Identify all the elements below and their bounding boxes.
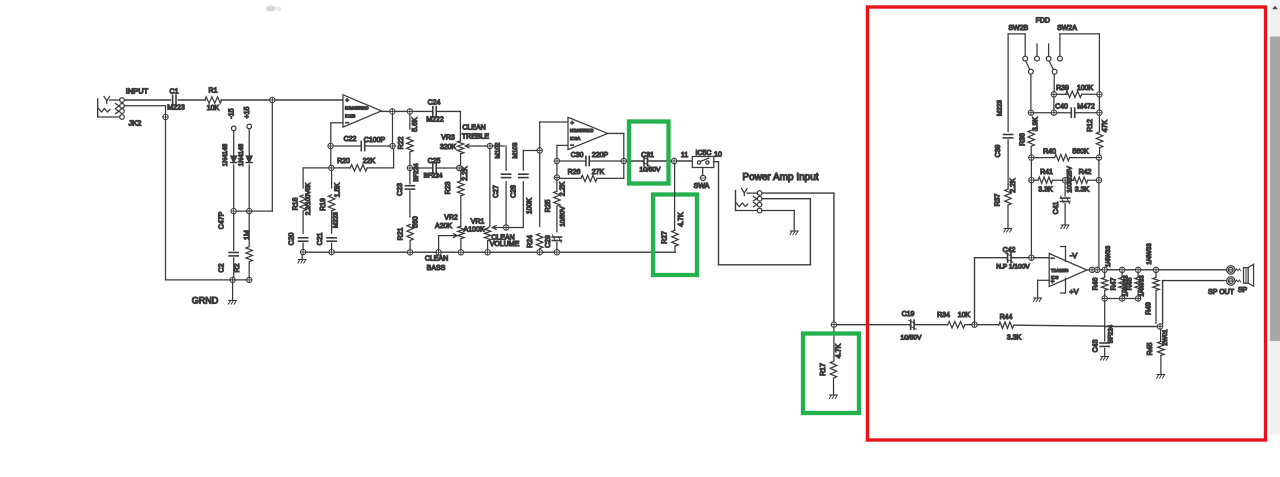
capacitor C30 220P feedback [560, 152, 622, 166]
svg-text:NJM4558DD: NJM4558DD [345, 105, 368, 110]
node VR1 wiper C27 [503, 225, 508, 230]
svg-text:2.2/100V5K: 2.2/100V5K [305, 182, 312, 215]
svg-text:47K: 47K [1102, 119, 1109, 132]
resistor R48 1/4W33 [1127, 273, 1146, 297]
svg-text:C19: C19 [902, 311, 915, 318]
svg-text:3.3K: 3.3K [1007, 335, 1022, 342]
svg-text:BF224: BF224 [413, 163, 420, 182]
svg-text:C20: C20 [289, 232, 296, 245]
wire IC3A -input column [557, 145, 568, 158]
resistor R26 27K feedback [560, 164, 624, 182]
diode D2 1N4148 [238, 129, 252, 208]
wire R20 row to R18 column [303, 168, 329, 188]
svg-text:A100K: A100K [463, 227, 484, 234]
svg-text:1N4148: 1N4148 [238, 143, 245, 166]
wire C42 to node [1011, 257, 1028, 259]
node R45 R49 speaker [1157, 324, 1162, 329]
wire R24 column / IC3A +input [540, 122, 568, 226]
node R46 top [1102, 267, 1107, 272]
svg-text:1000/25V: 1000/25V [1067, 165, 1074, 192]
svg-text:+: + [571, 121, 575, 127]
wire C31 to node [648, 160, 672, 162]
node fb bottom-left [329, 165, 334, 170]
green annotation box around R17 [803, 334, 859, 414]
wire node to IC6 -input [1034, 257, 1049, 259]
svg-text:3.3K: 3.3K [1038, 187, 1053, 194]
capacitor C1 [167, 89, 185, 112]
svg-text:-V: -V [1070, 251, 1078, 260]
svg-text:R25: R25 [545, 199, 552, 212]
svg-text:R39: R39 [1056, 85, 1069, 92]
svg-text:C30: C30 [571, 152, 584, 159]
wire jack contact 2 down to sleeve junction [125, 106, 166, 114]
scrollbar up button arrow [1272, 6, 1278, 10]
wire SW2A common down [1053, 74, 1055, 92]
svg-text:GRND: GRND [192, 296, 219, 306]
resistor R38 3.9K [1019, 116, 1039, 154]
svg-text:C42: C42 [1003, 247, 1016, 254]
svg-text:2.2K: 2.2K [1010, 178, 1017, 193]
label CLEAN TREBLE [462, 125, 490, 141]
svg-text:R20: R20 [337, 158, 350, 165]
label CLEAN VOLUME [490, 235, 520, 249]
wire output row [1095, 269, 1226, 271]
svg-text:+: + [346, 98, 350, 104]
ground C41 [1061, 224, 1069, 226]
capacitor C23 BF224 [397, 163, 420, 217]
node R48 top [1135, 267, 1140, 272]
svg-text:C2: C2 [218, 263, 225, 272]
resistor R1 [205, 88, 222, 113]
scrollbar thumb [1270, 37, 1280, 342]
svg-text:IC3A: IC3A [570, 136, 581, 141]
wire R25 column [556, 164, 558, 192]
node C31 right [671, 158, 676, 163]
svg-text:2W01: 2W01 [1162, 329, 1169, 346]
node R25 col R26 [554, 175, 559, 180]
svg-text:VOLUME: VOLUME [490, 241, 520, 248]
node diode rail A [231, 208, 236, 213]
svg-text:N.P 1/100V: N.P 1/100V [996, 264, 1030, 271]
node bus VR2 wiper [436, 250, 441, 255]
wire R46-R48 bottom row [1107, 298, 1135, 300]
svg-text:NJM4558DD: NJM4558DD [570, 128, 593, 133]
wire treble node down to VR1 [489, 149, 491, 222]
node R39 left [1051, 92, 1056, 97]
resistor R19 1.5K [320, 182, 342, 233]
wire C19 to R34 [914, 324, 947, 326]
ground bus wire [306, 251, 675, 253]
wire fb left column [330, 149, 332, 166]
resistor R44 3.3K [977, 314, 1104, 342]
svg-text:R34: R34 [937, 312, 950, 319]
svg-text:4.7K: 4.7K [678, 212, 685, 227]
capacitor C21 [317, 232, 336, 249]
faint smudge artifact [266, 6, 282, 12]
ground power amp jack [790, 230, 798, 232]
capacitor C31 10/50V [640, 152, 662, 174]
switch control SWA [694, 175, 710, 190]
resistor R42 3.3K [1068, 169, 1096, 194]
node R47 bottom [1119, 296, 1124, 301]
svg-text:1.5K: 1.5K [335, 182, 342, 197]
svg-text:3.9K: 3.9K [1032, 116, 1039, 131]
node IC6 out B [1095, 267, 1100, 272]
wire treble node [478, 145, 504, 147]
capacitor C42 NP 1/100V [996, 247, 1030, 271]
power amp input jack [736, 189, 762, 213]
svg-text:C24: C24 [428, 100, 441, 107]
node bus R21 [407, 250, 412, 255]
svg-text:IC5C: IC5C [696, 150, 712, 157]
wire IC1B output [381, 110, 389, 112]
svg-text:27K: 27K [592, 169, 605, 176]
svg-text:100K: 100K [1077, 85, 1094, 92]
resistor R46 1/4W33 [1093, 245, 1112, 296]
node diode rail B [247, 208, 252, 213]
svg-text:C31: C31 [641, 152, 654, 159]
ground IC6 +input [1034, 297, 1042, 299]
svg-text:10K: 10K [958, 312, 971, 319]
node IC1B out A [390, 109, 395, 114]
capacitor C40 M472 [1055, 104, 1095, 118]
node C40 left outer [1028, 110, 1033, 115]
capacitor C19 10/50V [901, 311, 923, 342]
svg-text:M102: M102 [495, 142, 502, 158]
svg-text:C21: C21 [317, 232, 324, 245]
svg-text:+V: +V [1069, 287, 1078, 296]
VR2 wiper arrow [439, 234, 458, 250]
svg-text:1M: 1M [244, 230, 251, 240]
svg-text:22K: 22K [363, 158, 376, 165]
ground GRND [229, 300, 237, 302]
ground C43 [1101, 356, 1109, 358]
wire C40 row [1034, 112, 1097, 114]
node C25 right [457, 165, 462, 170]
resistor R18 [292, 182, 312, 233]
node bus C20 [300, 249, 305, 254]
svg-text:TDA2050: TDA2050 [1051, 268, 1069, 273]
svg-text:R49: R49 [1146, 302, 1153, 315]
svg-text:CLEAN: CLEAN [462, 125, 485, 132]
svg-text:C22: C22 [344, 136, 357, 143]
svg-text:R46: R46 [1093, 277, 1100, 290]
node bus C29 [554, 250, 559, 255]
node R22 bottom [407, 165, 412, 170]
terminal -15 [229, 108, 236, 130]
resistor R40 560K [1034, 149, 1096, 161]
resistor R34 10K [937, 312, 970, 328]
svg-text:SP: SP [1238, 287, 1248, 294]
svg-text:1N4148: 1N4148 [222, 143, 229, 166]
GRND rail wire [166, 279, 248, 281]
capacitor C43 BF224 [1093, 324, 1115, 356]
svg-text:INPUT: INPUT [126, 87, 149, 96]
capacitor C41 1000/25V [1053, 165, 1074, 224]
ground R37 [1004, 228, 1012, 230]
wire SW2A col R39-C40 [1053, 97, 1055, 110]
svg-text:VR2: VR2 [444, 215, 458, 222]
svg-text:R37: R37 [995, 193, 1002, 206]
svg-text:560: 560 [413, 216, 420, 228]
node fb top-left [328, 143, 333, 148]
capacitor C29 10/50V [545, 206, 566, 250]
svg-text:R22: R22 [398, 136, 405, 149]
resistor R24 100K [526, 198, 543, 250]
ground R45 [1157, 374, 1165, 376]
svg-text:R24: R24 [527, 235, 534, 248]
node bus VR1 bottom [485, 250, 490, 255]
resistor R49 1/4W33 [1146, 243, 1160, 324]
svg-text:4.7K: 4.7K [836, 343, 843, 358]
svg-text:VR3: VR3 [441, 135, 455, 142]
svg-text:C43: C43 [1093, 339, 1100, 352]
node power amp R44 [972, 322, 977, 327]
wire sleeve down to GRND rail [165, 120, 167, 280]
svg-text:BF224: BF224 [424, 173, 443, 180]
svg-text:C47P: C47P [218, 211, 225, 229]
svg-text:-15: -15 [229, 108, 236, 118]
svg-text:2.2K: 2.2K [560, 181, 567, 196]
node R40 left [1029, 155, 1034, 160]
wire IC5C output loop to power amp jack [714, 162, 811, 265]
svg-text:−: − [1051, 255, 1055, 262]
svg-text:560K: 560K [1072, 149, 1089, 156]
svg-text:BASS: BASS [427, 265, 446, 272]
wire R38 col down [1030, 160, 1032, 177]
wire R19 column top [331, 171, 333, 188]
capacitor C25 row [413, 158, 457, 180]
svg-text:M223: M223 [997, 100, 1004, 116]
resistor R27 4.7K [661, 164, 685, 253]
node R46 bottom [1102, 296, 1107, 301]
resistor R45 2W0.1 [1147, 329, 1169, 374]
svg-text:A20K: A20K [435, 223, 452, 230]
power amp IC6 TDA2050 [1049, 254, 1087, 287]
resistor R39 100K [1056, 85, 1097, 98]
svg-text:10: 10 [714, 152, 722, 159]
node GRND R2 [247, 277, 252, 282]
svg-text:M223: M223 [332, 212, 339, 228]
node R41 left [1029, 178, 1034, 183]
feedback wire IC1B -input [331, 123, 343, 144]
node bus R24 [537, 250, 542, 255]
svg-text:3.3K: 3.3K [1075, 187, 1090, 194]
node bus VR2 bottom [458, 250, 463, 255]
resistor R22 5.6K [398, 114, 419, 165]
op-amp IC1B [343, 95, 381, 127]
svg-text:JK2: JK2 [129, 119, 142, 128]
svg-text:VR1: VR1 [471, 219, 485, 226]
svg-text:SP OUT: SP OUT [1208, 289, 1235, 296]
IC6 -V supply pin [1061, 247, 1078, 262]
node GRND C2 [230, 277, 235, 282]
resistor R20 22K [334, 149, 394, 171]
potentiometer VR2 A20K [435, 215, 464, 250]
svg-text:SWA: SWA [694, 183, 710, 190]
svg-text:C23: C23 [397, 183, 404, 196]
wire R34 to node [965, 324, 972, 326]
switch SW2A [1046, 34, 1099, 74]
green annotation box around C31 [629, 122, 669, 184]
svg-text:1/4W33: 1/4W33 [1138, 275, 1145, 297]
resistor R25 2.2K [545, 181, 566, 231]
svg-text:10/50V: 10/50V [640, 167, 662, 174]
resistor R23 2.2K [445, 166, 469, 226]
svg-text:R23: R23 [445, 181, 452, 194]
label CLEAN BASS [425, 256, 448, 273]
ground at C20 [298, 255, 306, 263]
node R47 top [1119, 267, 1124, 272]
wire C1 to R1 [178, 99, 205, 101]
svg-text:R45: R45 [1147, 342, 1154, 355]
left rail C39 column [997, 34, 1009, 131]
svg-text:+15: +15 [244, 106, 251, 118]
switch SW2B [1008, 34, 1039, 74]
wire C24 to VR3 top [436, 111, 460, 141]
wire node up to C42 [975, 258, 1008, 322]
node at R1 output [270, 97, 275, 102]
svg-text:IC1B: IC1B [345, 113, 355, 118]
op-amp IC3A [568, 117, 608, 149]
svg-text:M472: M472 [1077, 104, 1095, 111]
svg-text:C39: C39 [995, 144, 1002, 157]
speaker SP terminals [1227, 266, 1235, 286]
wire fb right column [392, 114, 394, 143]
svg-text:C28: C28 [510, 185, 517, 198]
speaker SP [1235, 264, 1253, 286]
svg-text:−: − [346, 120, 350, 126]
wire output row to C24 [395, 110, 433, 112]
wire SW2B common down [1030, 74, 1032, 110]
potentiometer VR1 A100K [463, 219, 490, 250]
wire R1 to node [221, 99, 270, 101]
ground R17 [830, 394, 838, 396]
node R42 right [1096, 178, 1101, 183]
svg-text:FDD: FDD [1036, 18, 1050, 25]
node fb top-right [390, 143, 395, 148]
wire node to IC5C pin 11 [677, 160, 693, 162]
node jack sleeve [163, 114, 168, 119]
svg-text:C27: C27 [493, 185, 500, 198]
resistor R12 47K right rail [1087, 34, 1109, 155]
resistor R21 560 [398, 216, 420, 249]
svg-text:C29: C29 [545, 235, 552, 248]
IC6 +input to ground [1038, 280, 1050, 297]
wire VR1 wiper row [503, 227, 523, 229]
node IC3A out [621, 158, 626, 163]
node C40 right [1097, 110, 1102, 115]
svg-text:100K: 100K [526, 198, 533, 215]
svg-text:R48: R48 [1127, 277, 1134, 290]
svg-text:1/4W33: 1/4W33 [1146, 243, 1153, 265]
svg-text:10/50V: 10/50V [560, 206, 567, 227]
node IC6 out A [1089, 267, 1094, 272]
wire jack tip to power amp [762, 193, 834, 322]
capacitor C22 C100P [333, 136, 390, 151]
svg-text:R42: R42 [1079, 169, 1092, 176]
svg-text:C100P: C100P [364, 137, 386, 144]
svg-text:M222: M222 [426, 117, 444, 124]
svg-text:R19: R19 [320, 198, 327, 211]
svg-text:11: 11 [681, 152, 688, 159]
node treble [487, 143, 492, 148]
svg-text:R18: R18 [292, 197, 299, 210]
node R49 top [1153, 267, 1158, 272]
svg-text:10/50V: 10/50V [901, 335, 923, 342]
svg-text:R12: R12 [1087, 119, 1094, 132]
green annotation box around R27 [653, 195, 697, 276]
node C28 R24 [537, 148, 542, 153]
svg-text:R44: R44 [1000, 314, 1013, 321]
diode D1 1N4148 [222, 131, 237, 209]
svg-text:R27: R27 [661, 231, 668, 244]
wire speaker return [1163, 281, 1226, 324]
node R40 right [1096, 155, 1101, 160]
svg-text:SW2A: SW2A [1057, 25, 1077, 32]
wire node to IC1B +input [275, 99, 343, 101]
wire to C31 [627, 160, 644, 162]
potentiometer VR3 320K [440, 135, 464, 166]
wire node to C19 [837, 324, 911, 326]
capacitor C39 [995, 135, 1013, 190]
wire IC6 output [1087, 269, 1089, 271]
wire IC3A output [608, 133, 624, 158]
capacitor C28 M103 [510, 142, 537, 227]
input jack JK2 [98, 97, 125, 120]
svg-text:C41: C41 [1053, 201, 1060, 214]
resistor R41 3.3K [1034, 169, 1062, 194]
svg-text:SW2B: SW2B [1008, 25, 1028, 32]
node power amp input [831, 322, 836, 327]
svg-text:TREBLE: TREBLE [462, 134, 490, 141]
svg-text:5.6K: 5.6K [412, 117, 419, 132]
svg-text:R38: R38 [1019, 133, 1026, 146]
terminal +15 [244, 106, 251, 128]
resistor R37 2.2K [995, 178, 1017, 228]
node R39 right [1097, 92, 1102, 97]
svg-text:C40: C40 [1055, 104, 1068, 111]
capacitor C20 [289, 232, 308, 249]
wire to ground symbol [232, 283, 234, 300]
red annotation box around power amp section [868, 7, 1266, 440]
node bus C21 [329, 249, 334, 254]
resistor R47 1/4W33 [1111, 273, 1130, 297]
IC6 +V supply pin [1061, 279, 1079, 297]
node R25 col C30 [554, 158, 559, 163]
svg-text:C1: C1 [170, 89, 179, 96]
VR1 wiper arrow [492, 227, 503, 229]
wire R41 col to C42 node [1030, 183, 1032, 255]
capacitor C27 M102 [490, 142, 511, 225]
svg-text:320K: 320K [440, 144, 457, 151]
capacitor C2 [218, 214, 238, 277]
svg-text:Power Amp Input: Power Amp Input [742, 172, 818, 183]
node C42 R41 column [1029, 255, 1034, 260]
resistor R2 1M [234, 214, 252, 277]
capacitor C24 M222 [426, 100, 444, 124]
svg-text:R41: R41 [1040, 169, 1053, 176]
wire R46 bottom to feedback row [1104, 301, 1106, 326]
node C40 left [1051, 110, 1056, 115]
svg-text:R2: R2 [234, 263, 241, 272]
svg-text:R21: R21 [398, 227, 405, 240]
svg-text:220P: 220P [592, 152, 609, 159]
svg-text:R26: R26 [568, 169, 581, 176]
svg-text:2.2K: 2.2K [462, 166, 469, 181]
resistor R17 4.7K [820, 327, 843, 394]
svg-text:C25: C25 [428, 158, 441, 165]
